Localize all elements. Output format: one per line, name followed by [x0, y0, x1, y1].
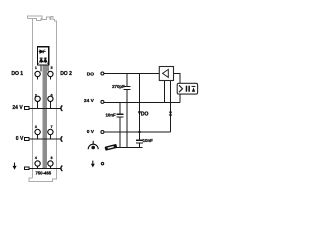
- small circle right bottom: [101, 162, 103, 164]
- svg-text:8: 8: [51, 156, 53, 160]
- zener diode D1: [169, 112, 172, 115]
- svg-text:3: 3: [35, 125, 37, 129]
- wire U2 out to U3: [174, 73, 180, 83]
- svg-text:4: 4: [35, 156, 37, 160]
- branch C1 vertical: [126, 74, 128, 87]
- svg-text:24 V: 24 V: [12, 105, 23, 111]
- connector plug row3: [24, 138, 28, 141]
- svg-text:0 V: 0 V: [16, 136, 24, 142]
- stem terminal 7: [49, 135, 51, 139]
- svg-text:10nF: 10nF: [105, 112, 116, 117]
- status LED box U3: [177, 83, 197, 94]
- LED top horizontal: [39, 50, 46, 54]
- branch DO tap vertical: [139, 74, 141, 133]
- LED box U1: [38, 47, 49, 65]
- stem terminal 3: [37, 135, 39, 139]
- junction dot tap-0V: [138, 131, 140, 133]
- branch C3 vertical: [139, 132, 141, 140]
- wire row3: [29, 138, 61, 140]
- capacitor C3 plates: [136, 140, 143, 143]
- wire U3 to 24V rail: [179, 94, 181, 102]
- supply stub U2 left: [164, 81, 166, 103]
- wire DO rail: [104, 73, 159, 75]
- stem terminal 5: [49, 77, 51, 80]
- stem terminal 1: [37, 77, 39, 80]
- amplifier U2: [159, 67, 173, 81]
- terminal circle DO: [101, 72, 104, 75]
- wire 0V rail: [104, 131, 170, 133]
- svg-text:5: 5: [51, 66, 53, 70]
- svg-text:DO 1: DO 1: [11, 71, 23, 77]
- earth arrow right: [91, 161, 95, 168]
- earth rail: [114, 147, 143, 149]
- svg-text:7: 7: [51, 125, 53, 129]
- black wires and stems: [29, 65, 180, 168]
- capacitor C2 plates: [117, 114, 124, 117]
- svg-text:10nF: 10nF: [143, 138, 154, 143]
- terminal 5: [48, 66, 53, 77]
- svg-text:750-465: 750-465: [35, 171, 51, 176]
- module center contact bar: [43, 65, 47, 168]
- clamp chevron row2: [61, 106, 62, 111]
- svg-text:24 V: 24 V: [84, 98, 95, 104]
- svg-text:270pF: 270pF: [112, 84, 125, 89]
- arrow node DO internal: [138, 111, 141, 115]
- svg-text:1: 1: [35, 66, 37, 70]
- functional earth dome symbol: [88, 141, 98, 150]
- shield clamp: [104, 144, 117, 151]
- stem terminal 6: [49, 102, 51, 109]
- svg-text:DO 2: DO 2: [60, 71, 72, 77]
- stem terminal 4: [37, 166, 39, 168]
- clamp chevron row4: [61, 166, 62, 171]
- terminal 2: [35, 94, 40, 102]
- wire row4: [29, 167, 61, 169]
- svg-text:DO: DO: [87, 71, 94, 77]
- wire row2: [29, 108, 61, 110]
- svg-text:DO: DO: [141, 112, 149, 118]
- wire 24V rail: [104, 102, 180, 104]
- svg-text:0 V: 0 V: [87, 129, 95, 135]
- terminal 1: [35, 66, 40, 77]
- supply stub U2 right: [170, 81, 172, 133]
- module outline top latch tab: [27, 16, 56, 178]
- terminal circle 0V: [101, 131, 104, 134]
- clamp chevron row3: [61, 136, 62, 141]
- capacitor C1 plates: [124, 86, 131, 89]
- LED right vertical: [44, 58, 48, 64]
- stub U1 to terminal 1: [40, 65, 42, 71]
- module outline bottom foot: [29, 178, 56, 182]
- terminal 8: [48, 156, 53, 166]
- terminal circle 24V: [101, 100, 104, 103]
- stem terminal 8: [49, 166, 51, 168]
- LED left vertical: [38, 58, 42, 64]
- connector plug row2: [24, 107, 28, 110]
- terminal 4: [35, 156, 40, 166]
- terminal 7: [48, 125, 53, 135]
- stub U1 to terminal 5: [47, 65, 49, 71]
- connector plug row4: [24, 167, 28, 170]
- terminal 3: [35, 125, 40, 135]
- branch C2 vertical: [119, 102, 121, 114]
- stem terminal 2: [37, 102, 39, 109]
- terminal 6: [48, 94, 53, 102]
- earth arrow left: [13, 163, 17, 170]
